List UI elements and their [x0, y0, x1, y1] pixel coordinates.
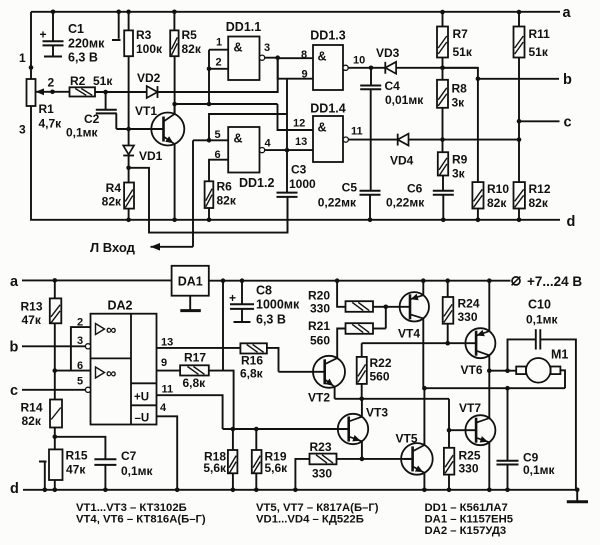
- DA2 op-amp symbol 1: [96, 324, 105, 335]
- svg-text:+7...24 В: +7...24 В: [527, 274, 582, 289]
- svg-text:c: c: [10, 383, 18, 399]
- supply connector symbol: [512, 277, 520, 285]
- wire output line y388: [424, 387, 565, 389]
- svg-text:VT1...VT3 – КТ3102Б: VT1...VT3 – КТ3102Б: [76, 502, 187, 514]
- resistor R7: [442, 12, 444, 27]
- wire R7 node to row b corner: [443, 68, 478, 182]
- svg-text:330: 330: [310, 302, 330, 316]
- capacitor C1: [52, 12, 54, 41]
- wire DA2 pin13 to R16: [157, 347, 241, 349]
- resistor R11: [518, 12, 520, 27]
- wire R1 pin3 down to row d: [31, 106, 560, 220]
- wire VT2 collector to R21: [337, 329, 345, 358]
- op-amp DA2: [91, 314, 157, 425]
- svg-text:b: b: [563, 72, 572, 88]
- svg-text:R23: R23: [310, 440, 332, 454]
- svg-text:R6: R6: [217, 180, 233, 194]
- svg-text:3: 3: [77, 335, 83, 347]
- wire M1 left terminal line: [489, 370, 516, 372]
- svg-text:3к: 3к: [452, 96, 466, 110]
- junction VD1 cathode node: [126, 166, 131, 171]
- wire VD1 node to C3 bottom detour: [129, 168, 288, 233]
- svg-text:VT4: VT4: [398, 327, 420, 341]
- wire DD1.3 pin8: [278, 57, 313, 59]
- svg-text:+U: +U: [134, 392, 149, 404]
- svg-text:c: c: [564, 115, 572, 131]
- svg-text:330: 330: [458, 310, 478, 324]
- resistor R12: [514, 182, 525, 208]
- svg-text:8: 8: [301, 49, 307, 61]
- wire rail to R20: [337, 281, 345, 307]
- svg-text:2: 2: [48, 76, 55, 90]
- motor M1: [526, 358, 551, 383]
- svg-text:Л Вход: Л Вход: [90, 240, 136, 255]
- DA2 op-amp symbol 2: [96, 367, 105, 378]
- svg-text:R22: R22: [370, 356, 392, 370]
- resistor R10: [472, 182, 483, 208]
- resistor R5: [173, 12, 175, 31]
- wire row a to DA1: [22, 279, 172, 281]
- svg-text:51к: 51к: [529, 45, 549, 59]
- wire DA1 node down to R17 line: [222, 281, 224, 371]
- diode VD3: [371, 67, 385, 69]
- svg-text:DD1.1: DD1.1: [226, 20, 261, 34]
- resistor R19: [252, 450, 262, 473]
- svg-text:5: 5: [215, 129, 221, 141]
- svg-text:C5: C5: [342, 181, 358, 195]
- resistor R15 (trimmer): [49, 449, 63, 480]
- svg-text:6,8к: 6,8к: [240, 367, 264, 381]
- junction R3/VD1/base: [126, 127, 131, 132]
- capacitor C6: [433, 190, 454, 192]
- svg-text:100к: 100к: [136, 42, 163, 56]
- svg-text:–U: –U: [135, 413, 150, 425]
- resistor R8: [437, 80, 448, 108]
- svg-text:VT3: VT3: [366, 406, 388, 420]
- svg-text:12: 12: [293, 118, 305, 130]
- resistor R17: [180, 365, 209, 375]
- wire VT2 emitter line: [335, 398, 449, 400]
- junction row c start: [517, 119, 522, 124]
- svg-text:82к: 82к: [217, 194, 237, 208]
- svg-text:3: 3: [264, 42, 270, 54]
- svg-text:R20: R20: [308, 289, 330, 303]
- svg-text:C10: C10: [528, 298, 551, 312]
- svg-text:2: 2: [216, 57, 222, 69]
- resistor R21: [346, 323, 374, 334]
- wire pin9 node to DD1.4 pin13: [286, 79, 288, 150]
- wire DA2 pin4 to row d: [157, 416, 178, 490]
- svg-text:1000: 1000: [289, 177, 316, 191]
- ground symbol bottom right: [576, 490, 578, 501]
- svg-text:C6: C6: [407, 182, 423, 196]
- svg-text:R13: R13: [21, 300, 43, 314]
- svg-text:11: 11: [162, 384, 174, 396]
- capacitor C10: [508, 339, 536, 370]
- svg-text:0,1мк: 0,1мк: [526, 313, 559, 327]
- svg-text:0,22мк: 0,22мк: [386, 196, 425, 210]
- svg-text:∞: ∞: [106, 366, 116, 382]
- svg-text:VD2: VD2: [137, 71, 161, 85]
- svg-text:47к: 47к: [22, 313, 42, 327]
- svg-text:∞: ∞: [106, 323, 116, 339]
- svg-text:82к: 82к: [182, 42, 202, 56]
- svg-text:&: &: [234, 41, 243, 55]
- svg-text:82к: 82к: [102, 195, 122, 209]
- svg-text:&: &: [234, 132, 243, 146]
- svg-text:13: 13: [295, 136, 307, 148]
- diode VD4: [398, 134, 409, 146]
- wire pin2 DD1.1: [209, 68, 228, 70]
- svg-text:5: 5: [77, 376, 83, 388]
- svg-text:1: 1: [216, 37, 222, 49]
- logic gate DD1.3: [313, 45, 343, 90]
- resistor R6: [205, 181, 214, 208]
- svg-text:560: 560: [370, 370, 390, 384]
- wire VD4 anode to R9 node: [409, 139, 520, 141]
- svg-text:R24: R24: [458, 297, 480, 311]
- wire pin3 node down to pin9: [278, 58, 313, 79]
- junction collector node H1: [172, 102, 177, 107]
- capacitor C8: [241, 281, 243, 305]
- diode VD2: [147, 86, 158, 98]
- svg-text:VT1: VT1: [135, 104, 157, 118]
- svg-text:DA2: DA2: [107, 299, 132, 313]
- svg-text:0,01мк: 0,01мк: [385, 93, 424, 107]
- wire left vertical from rail to R1: [30, 12, 32, 79]
- wire stub with bar near C1/R3: [118, 12, 120, 39]
- wire DD1.2 pin6 to R6: [209, 160, 228, 182]
- wire VT6 base junction: [445, 341, 450, 346]
- wire DD1.4 output pin11 to VD4: [348, 139, 397, 141]
- wire row b: [478, 78, 559, 80]
- resistor R14: [50, 400, 62, 428]
- svg-text:5,6к: 5,6к: [265, 461, 289, 475]
- voltage regulator DA1: [172, 266, 209, 296]
- svg-text:DD1.3: DD1.3: [310, 29, 345, 43]
- svg-text:R5: R5: [182, 28, 198, 42]
- resistor R18: [228, 450, 238, 473]
- svg-text:C2: C2: [84, 112, 100, 126]
- svg-text:R21: R21: [308, 319, 330, 333]
- svg-text:82к: 82к: [529, 196, 549, 210]
- wire DD1.1 pins1-2 tie vertical: [208, 50, 210, 104]
- wire R14/R15 node to C7: [55, 437, 106, 460]
- wire R16 to VT2 base: [267, 348, 279, 372]
- svg-text:VT4, VT6 – КТ816А(Б–Г): VT4, VT6 – КТ816А(Б–Г): [76, 514, 206, 526]
- svg-text:0,1мк: 0,1мк: [121, 464, 154, 478]
- wire M1 right loop: [560, 370, 565, 388]
- svg-text:220мк: 220мк: [68, 37, 105, 51]
- svg-text:330: 330: [459, 462, 479, 476]
- svg-text:VT2: VT2: [308, 391, 330, 405]
- svg-text:3к: 3к: [452, 167, 466, 181]
- resistor R24: [447, 281, 449, 297]
- wire DD1.2 output pin4: [265, 149, 287, 151]
- svg-text:R1: R1: [39, 102, 55, 116]
- wire DD1.3 output pin10: [348, 67, 371, 69]
- svg-text:3: 3: [19, 123, 26, 137]
- svg-text:0,1мк: 0,1мк: [523, 463, 556, 477]
- wire H1 collector node line: [175, 103, 278, 105]
- svg-text:&: &: [318, 121, 327, 135]
- resistor R25: [448, 430, 450, 448]
- wire C3 bottom crossing to detour: [287, 197, 289, 233]
- wire top rail (net a): [31, 11, 560, 13]
- wire DD1.2 pin5: [193, 139, 228, 141]
- svg-text:82к: 82к: [487, 196, 507, 210]
- wire DD1.1 output pin3: [265, 57, 278, 59]
- junction on R1 pin1 wire: [29, 65, 34, 70]
- R15 trimmer tap: [39, 461, 47, 463]
- resistor R2: [70, 87, 96, 96]
- wire R1 wiper arrow: [36, 91, 70, 93]
- svg-text:6,3 В: 6,3 В: [256, 313, 286, 327]
- wire input node vertical: [192, 140, 194, 247]
- svg-text:R9: R9: [452, 153, 468, 167]
- resistor R23: [295, 459, 309, 490]
- svg-text:0,22мк: 0,22мк: [318, 196, 357, 210]
- svg-text:R14: R14: [21, 401, 43, 415]
- wire R11 bottom through c node: [518, 58, 520, 183]
- svg-text:560: 560: [310, 334, 330, 348]
- svg-text:C4: C4: [385, 79, 401, 93]
- diode VD1: [123, 146, 134, 155]
- svg-text:VD3: VD3: [376, 46, 400, 60]
- svg-text:1: 1: [19, 51, 26, 65]
- wire R2 to VD2: [95, 91, 147, 93]
- wire pins 2/6 of DA2: [55, 370, 91, 372]
- resistor R16: [240, 343, 267, 353]
- svg-text:R8: R8: [452, 82, 468, 96]
- capacitor C5: [360, 190, 381, 192]
- resistor R22: [361, 343, 363, 357]
- svg-text:d: d: [10, 481, 19, 497]
- svg-text:DA2 – К157УД3: DA2 – К157УД3: [425, 525, 507, 537]
- svg-text:C1: C1: [68, 22, 84, 36]
- svg-text:11: 11: [351, 126, 363, 138]
- svg-text:R17: R17: [184, 351, 206, 365]
- capacitor C4: [370, 68, 372, 86]
- svg-text:47к: 47к: [66, 463, 86, 477]
- capacitor C7: [94, 458, 116, 460]
- svg-text:R7: R7: [453, 27, 469, 41]
- svg-text:13: 13: [161, 337, 173, 349]
- svg-text:DA1 – К1157ЕН5: DA1 – К1157ЕН5: [425, 514, 514, 526]
- svg-text:DD1 – К561ЛА7: DD1 – К561ЛА7: [425, 502, 508, 514]
- wire VD2 cathode to DD1.1 output node: [158, 58, 278, 92]
- wire row c to DA2 pin5: [22, 389, 86, 391]
- wire DD1.4 pin13: [287, 149, 313, 151]
- capacitor C2: [105, 92, 107, 110]
- svg-text:R15: R15: [66, 449, 88, 463]
- svg-text:4: 4: [265, 138, 272, 150]
- logic gate DD1.4: [313, 116, 343, 162]
- resistor R3: [128, 12, 130, 31]
- svg-text:M1: M1: [551, 348, 568, 362]
- resistor R13: [54, 280, 56, 298]
- svg-text:VT5, VT7 – К817А(Б–Г): VT5, VT7 – К817А(Б–Г): [256, 502, 379, 514]
- svg-text:51к: 51к: [453, 45, 473, 59]
- wire R17 to feedback node: [209, 371, 234, 429]
- capacitor C3: [286, 150, 288, 193]
- svg-text:+: +: [229, 291, 236, 305]
- svg-text:330: 330: [312, 467, 332, 481]
- svg-text:a: a: [10, 274, 19, 290]
- svg-text:DA1: DA1: [178, 274, 203, 288]
- svg-text:R2: R2: [70, 74, 86, 88]
- wire VD3 anode to R7/R8 node: [396, 67, 478, 69]
- svg-text:d: d: [567, 214, 576, 230]
- wire R20/R21 join to VT4 base: [373, 306, 386, 308]
- svg-text:1000мк: 1000мк: [256, 298, 300, 312]
- svg-text:DD1.4: DD1.4: [310, 102, 345, 116]
- svg-text:6,3 В: 6,3 В: [68, 51, 98, 65]
- capacitor C9: [507, 388, 509, 461]
- svg-text:R16: R16: [241, 354, 263, 368]
- wire VT2 emitter to VT7 base: [448, 399, 450, 430]
- svg-text:6: 6: [77, 360, 83, 372]
- svg-text:C3: C3: [291, 163, 307, 177]
- wire DA2 pin11 to feedback line: [157, 395, 223, 429]
- svg-text:R25: R25: [459, 449, 481, 463]
- wire row d bottom: [23, 489, 577, 491]
- junction C2 tap: [103, 90, 108, 95]
- svg-text:VD4: VD4: [390, 154, 414, 168]
- wire input arrow line: [151, 246, 194, 248]
- wire R5 bottom to VT1 collector: [174, 56, 176, 115]
- wire R13 to R14 junction: [54, 323, 56, 399]
- svg-text:C7: C7: [121, 449, 137, 463]
- svg-text:10: 10: [353, 55, 365, 67]
- logic gate DD1.1: [228, 37, 259, 81]
- wire row b to DA2 pin3: [22, 345, 86, 347]
- svg-text:&: &: [318, 50, 327, 64]
- wire DA2 pin9 to R17: [157, 370, 181, 372]
- wire R23 to VT5 base: [337, 458, 413, 460]
- svg-text:VD1: VD1: [139, 149, 163, 163]
- svg-text:b: b: [10, 340, 19, 356]
- svg-text:82к: 82к: [22, 414, 42, 428]
- resistor R20: [346, 301, 374, 312]
- wire H2 to DD1.4 pin13 node: [209, 114, 287, 140]
- svg-text:6,8к: 6,8к: [183, 376, 207, 390]
- svg-text:R11: R11: [529, 27, 551, 41]
- svg-text:VD1...VD4 – КД522Б: VD1...VD4 – КД522Б: [256, 514, 364, 526]
- wire supply rail from DA1: [209, 280, 511, 282]
- junction row b start: [476, 77, 481, 82]
- wire V1 to DD1.4 pin12: [278, 104, 314, 130]
- svg-text:VT6: VT6: [461, 363, 483, 377]
- wire pin1 DD1.1: [209, 49, 228, 51]
- logic gate DD1.2: [228, 127, 259, 173]
- svg-text:R4: R4: [106, 181, 122, 195]
- potentiometer R1: [27, 79, 36, 106]
- resistor R9: [438, 152, 448, 175]
- svg-text:R12: R12: [529, 182, 551, 196]
- svg-text:C8: C8: [256, 284, 272, 298]
- svg-text:VT7: VT7: [459, 401, 481, 415]
- resistor R4: [124, 183, 134, 209]
- svg-text:R10: R10: [487, 182, 509, 196]
- svg-text:R3: R3: [136, 28, 152, 42]
- svg-text:4,7к: 4,7к: [39, 117, 63, 131]
- wire VT6 collector through to VT7 collector: [488, 371, 490, 418]
- wire row c: [519, 120, 560, 122]
- svg-text:a: a: [563, 5, 572, 21]
- svg-text:DD1.2: DD1.2: [239, 176, 274, 190]
- svg-text:5,6к: 5,6к: [203, 461, 227, 475]
- svg-text:9: 9: [161, 357, 167, 369]
- svg-text:4: 4: [160, 402, 167, 414]
- ground at DA1: [189, 296, 191, 310]
- wire feedback line y429: [231, 427, 236, 432]
- svg-text:2: 2: [77, 317, 83, 329]
- svg-text:0,1мк: 0,1мк: [66, 126, 99, 140]
- svg-text:51к: 51к: [93, 74, 113, 88]
- wire R3 bottom to VT1 base node: [128, 56, 130, 145]
- svg-text:+: +: [40, 28, 47, 42]
